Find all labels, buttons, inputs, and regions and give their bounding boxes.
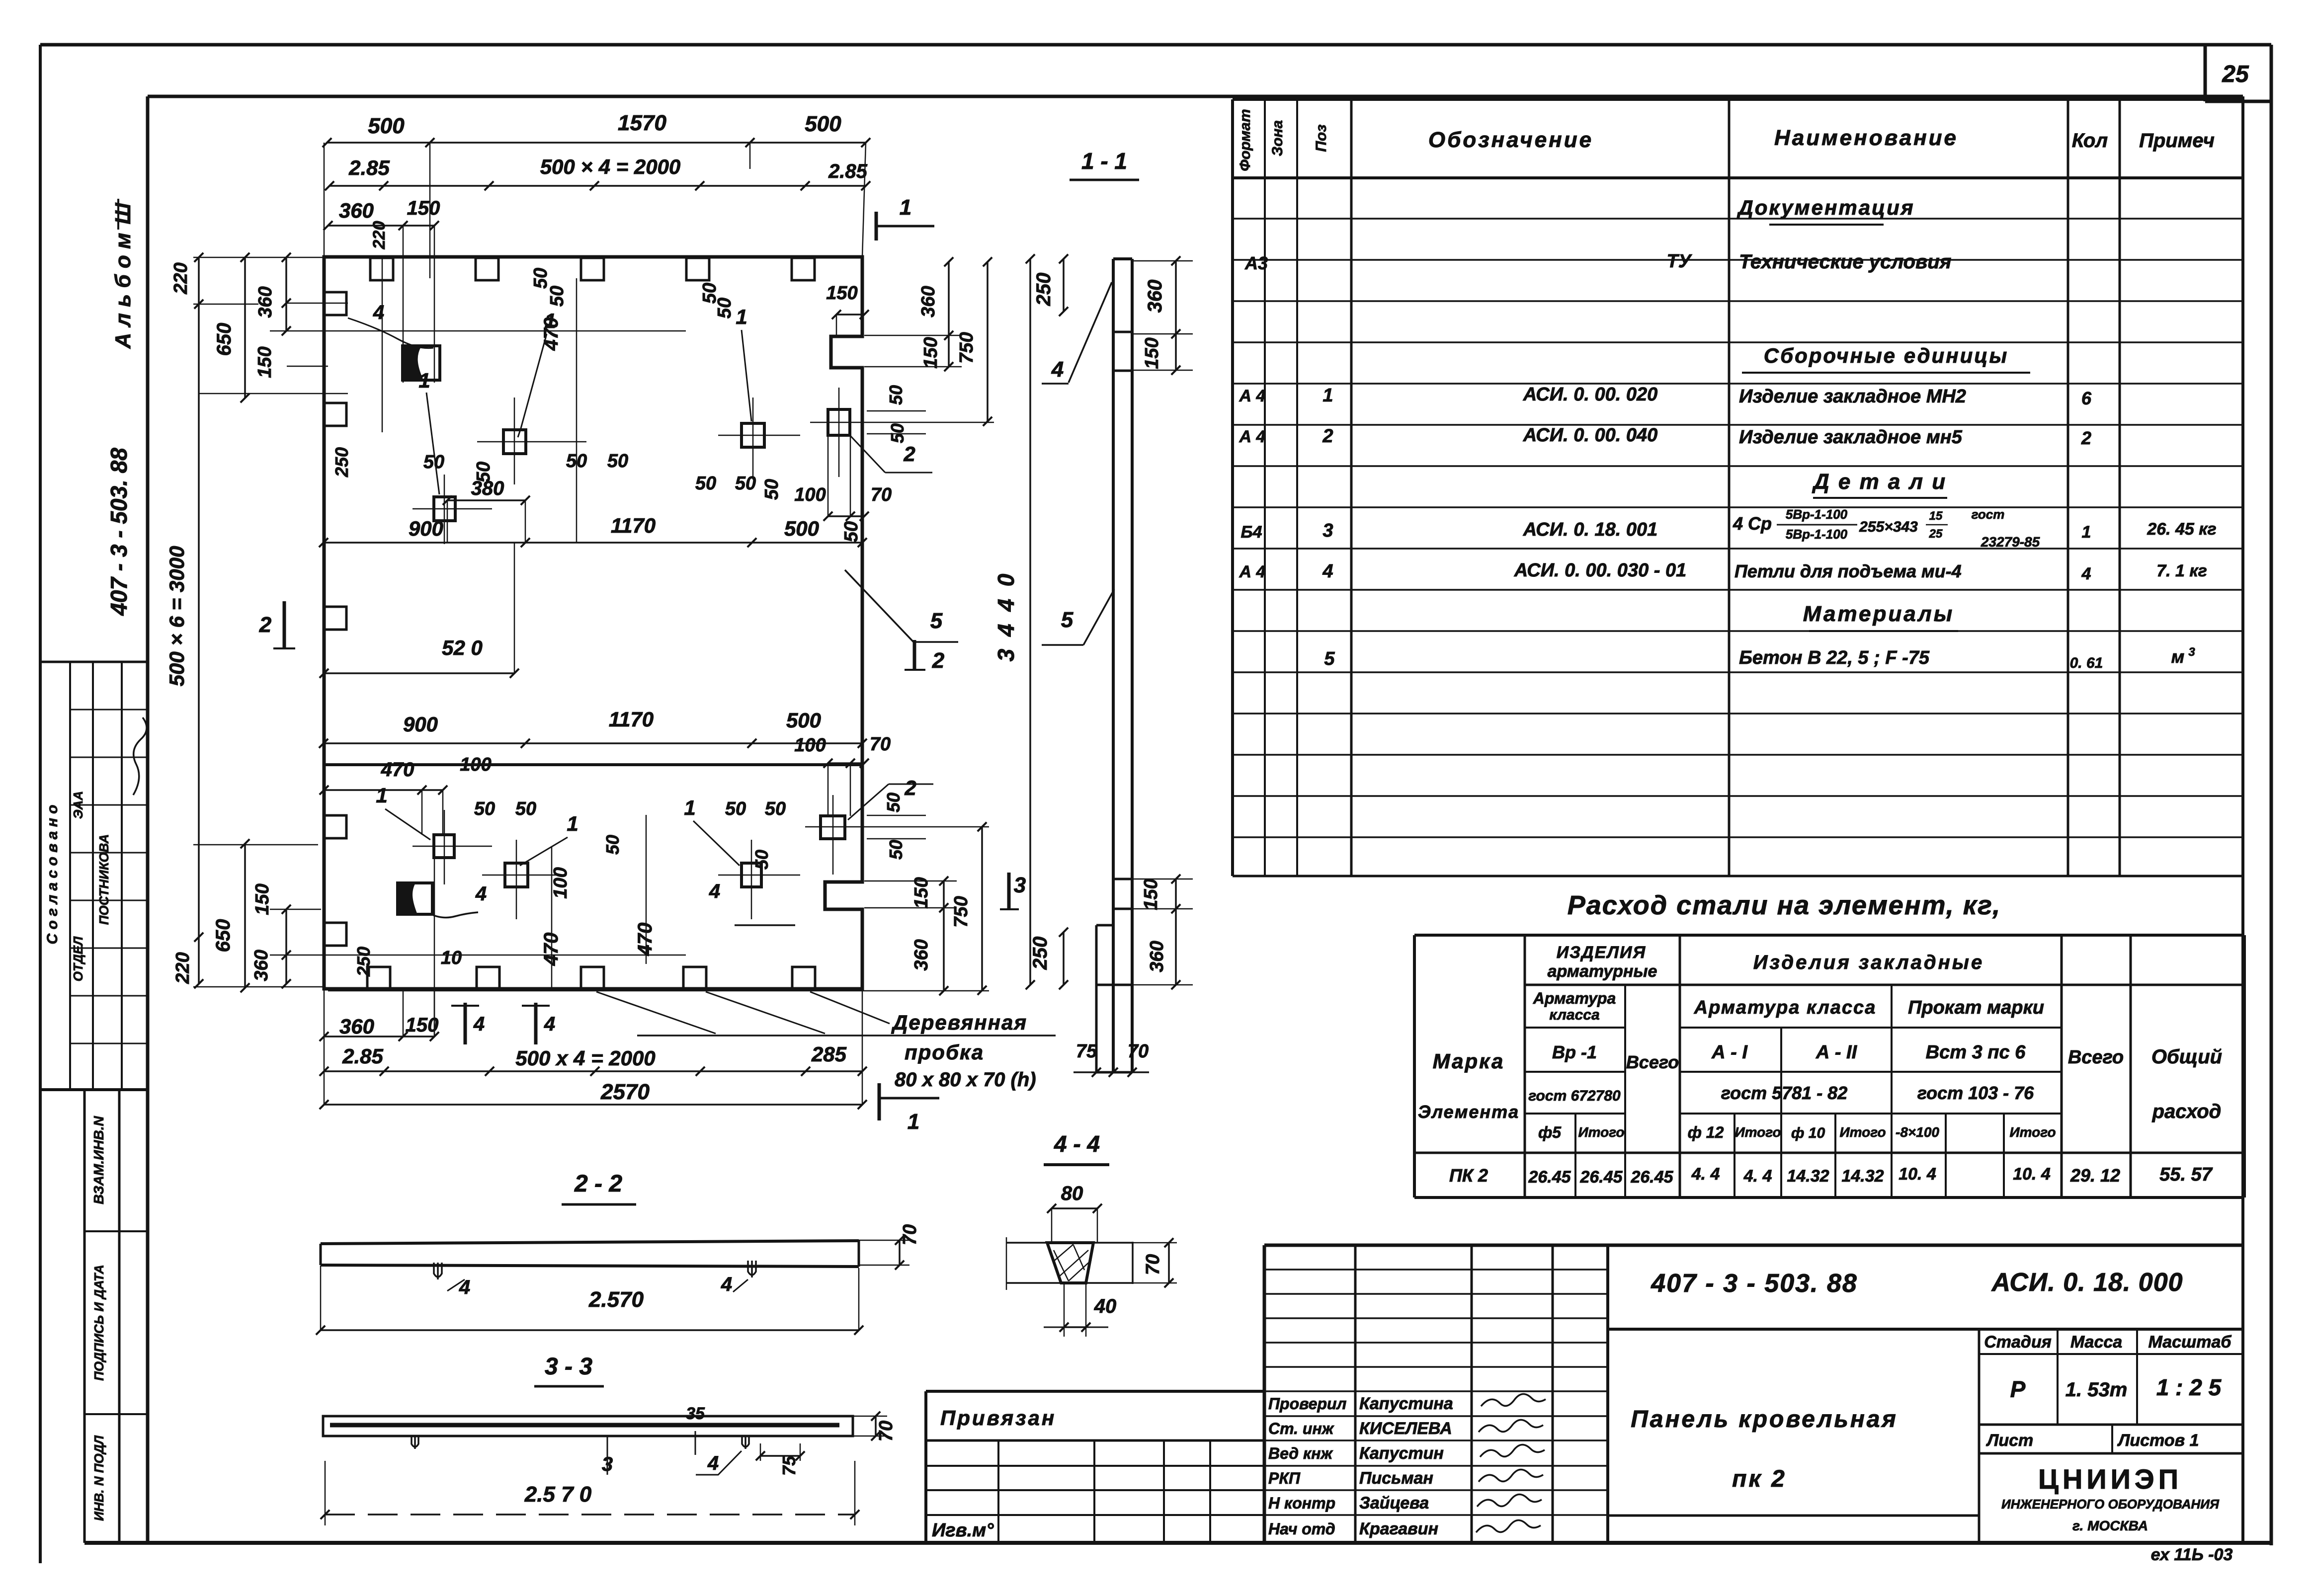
svg-text:25: 25 bbox=[1929, 527, 1943, 541]
soglasovano approval table bbox=[40, 661, 148, 663]
frame top line bbox=[148, 95, 2243, 98]
svg-text:Документация: Документация bbox=[1736, 196, 1914, 219]
strip crossing lines bbox=[1113, 331, 1132, 333]
svg-text:Вст 3 пс 6: Вст 3 пс 6 bbox=[1926, 1042, 2026, 1063]
svg-text:Ш: Ш bbox=[111, 203, 135, 225]
svg-text:500 x 4 = 2000: 500 x 4 = 2000 bbox=[515, 1046, 655, 1070]
svg-text:70: 70 bbox=[900, 1224, 920, 1245]
svg-text:Игв.м°: Игв.м° bbox=[932, 1520, 994, 1541]
svg-text:Капустина: Капустина bbox=[1359, 1394, 1453, 1413]
svg-text:А 4: А 4 bbox=[1239, 427, 1266, 446]
svg-text:4 Ср: 4 Ср bbox=[1733, 513, 1772, 534]
svg-text:Итого: Итого bbox=[1735, 1124, 1781, 1140]
title block central grid verticals bbox=[1354, 1245, 1357, 1543]
svg-text:360: 360 bbox=[339, 199, 374, 222]
svg-text:6: 6 bbox=[2081, 388, 2092, 408]
svg-text:70: 70 bbox=[1143, 1254, 1163, 1275]
svg-text:52 0: 52 0 bbox=[442, 636, 483, 659]
svg-text:2 - 2: 2 - 2 bbox=[574, 1171, 622, 1197]
svg-text:2.85: 2.85 bbox=[828, 160, 868, 182]
svg-text:360: 360 bbox=[911, 939, 932, 970]
svg-text:7. 1 кг: 7. 1 кг bbox=[2156, 561, 2207, 580]
svg-text:Крагавин: Крагавин bbox=[1359, 1519, 1438, 1538]
svg-text:50: 50 bbox=[530, 268, 551, 289]
embedded plate 1 (upper left) bbox=[434, 497, 455, 521]
svg-text:1170: 1170 bbox=[609, 708, 654, 731]
embedded plate 1 (lower right) bbox=[742, 863, 761, 887]
3-3 hook right bbox=[742, 1436, 749, 1449]
svg-text:1: 1 bbox=[2082, 523, 2091, 542]
svg-text:АСИ. 0. 18. 000: АСИ. 0. 18. 000 bbox=[1990, 1268, 2183, 1297]
svg-text:50: 50 bbox=[602, 835, 623, 855]
svg-text:2: 2 bbox=[259, 613, 272, 637]
embedded plate 4 dark wedge (upper) bbox=[403, 346, 440, 380]
svg-text:150: 150 bbox=[826, 283, 857, 304]
svg-text:1: 1 bbox=[544, 309, 556, 332]
svg-text:1: 1 bbox=[684, 796, 695, 819]
svg-text:150: 150 bbox=[252, 883, 273, 915]
svg-text:класса: класса bbox=[1549, 1007, 1599, 1023]
svg-text:5Вр-1-100: 5Вр-1-100 bbox=[1786, 527, 1848, 542]
svg-text:Лист: Лист bbox=[1985, 1431, 2033, 1450]
svg-text:5: 5 bbox=[1061, 608, 1074, 632]
svg-text:50: 50 bbox=[473, 462, 494, 482]
roof panel outline (plan view) bbox=[324, 257, 862, 989]
svg-text:арматурные: арматурные bbox=[1548, 962, 1657, 981]
svg-text:55. 57: 55. 57 bbox=[2159, 1164, 2213, 1185]
svg-text:2: 2 bbox=[2081, 428, 2091, 448]
svg-text:Изделия закладные: Изделия закладные bbox=[1753, 952, 1984, 973]
svg-text:Арматура класса: Арматура класса bbox=[1694, 997, 1877, 1018]
svg-text:Технические условия: Технические условия bbox=[1739, 251, 1951, 273]
svg-text:ВЗАМ.ИНВ.N: ВЗАМ.ИНВ.N bbox=[91, 1116, 106, 1204]
title block outer bbox=[1264, 1244, 2243, 1247]
svg-text:Вед кнж: Вед кнж bbox=[1268, 1444, 1333, 1462]
svg-text:50: 50 bbox=[474, 798, 495, 819]
svg-text:ех 11Ь -03: ех 11Ь -03 bbox=[2151, 1545, 2233, 1564]
svg-text:150: 150 bbox=[911, 877, 932, 908]
svg-text:900: 900 bbox=[403, 713, 438, 736]
svg-text:150: 150 bbox=[254, 346, 275, 378]
svg-text:150: 150 bbox=[407, 197, 440, 219]
sheet outer border bbox=[40, 43, 2271, 47]
svg-text:Деревянная: Деревянная bbox=[891, 1011, 1027, 1034]
2-2 lifting hook right bbox=[748, 1261, 756, 1277]
svg-text:Итого: Итого bbox=[2009, 1124, 2056, 1140]
svg-text:250: 250 bbox=[331, 447, 352, 478]
svg-text:50: 50 bbox=[735, 473, 756, 494]
svg-text:ф5: ф5 bbox=[1538, 1123, 1562, 1141]
svg-text:4: 4 bbox=[721, 1274, 732, 1295]
frame bottom line bbox=[84, 1541, 2271, 1545]
svg-text:А3: А3 bbox=[1244, 253, 1268, 273]
lower view top edge line bbox=[324, 763, 862, 766]
svg-text:10: 10 bbox=[441, 948, 462, 968]
svg-text:1170: 1170 bbox=[611, 514, 656, 537]
svg-text:250: 250 bbox=[1029, 937, 1051, 970]
bottom edge notch squares bbox=[367, 967, 390, 989]
svg-text:Листов 1: Листов 1 bbox=[2117, 1431, 2199, 1450]
svg-text:100: 100 bbox=[460, 754, 491, 775]
svg-text:2: 2 bbox=[903, 442, 915, 466]
svg-text:-8×100: -8×100 bbox=[1896, 1124, 1939, 1140]
svg-text:Б4: Б4 bbox=[1241, 523, 1262, 542]
svg-text:26.45: 26.45 bbox=[1579, 1168, 1623, 1187]
svg-text:Примеч: Примеч bbox=[2139, 130, 2215, 152]
section mark 1 (bottom) bbox=[878, 1083, 881, 1120]
svg-text:50: 50 bbox=[887, 423, 908, 443]
svg-text:Масштаб: Масштаб bbox=[2148, 1333, 2232, 1352]
svg-text:150: 150 bbox=[920, 337, 941, 368]
svg-text:2.570: 2.570 bbox=[588, 1287, 644, 1312]
svg-text:250: 250 bbox=[1033, 273, 1055, 307]
svg-text:2.85: 2.85 bbox=[342, 1044, 383, 1068]
svg-text:26.45: 26.45 bbox=[1528, 1168, 1571, 1187]
svg-text:А 4: А 4 bbox=[1239, 387, 1266, 405]
svg-text:150: 150 bbox=[1141, 878, 1161, 910]
embedded plate 4 dark wedge (lower) bbox=[398, 883, 432, 914]
svg-text:50: 50 bbox=[883, 793, 904, 812]
margin box vzam inv N bbox=[83, 1090, 86, 1543]
svg-text:2.85: 2.85 bbox=[348, 156, 390, 179]
svg-text:расход: расход bbox=[2152, 1101, 2222, 1122]
svg-text:2: 2 bbox=[932, 648, 945, 673]
svg-text:750: 750 bbox=[951, 896, 972, 927]
svg-text:пк 2: пк 2 bbox=[1732, 1466, 1787, 1492]
svg-text:4: 4 bbox=[2081, 564, 2091, 583]
svg-text:АСИ. 0. 00. 040: АСИ. 0. 00. 040 bbox=[1523, 425, 1657, 446]
title block central grid rows bbox=[1264, 1269, 1608, 1271]
svg-text:50: 50 bbox=[761, 479, 782, 500]
privyazan table bbox=[926, 1390, 1264, 1393]
svg-text:407 - 3 - 503. 88: 407 - 3 - 503. 88 bbox=[1651, 1269, 1858, 1298]
svg-text:220: 220 bbox=[172, 952, 193, 984]
svg-text:35: 35 bbox=[686, 1404, 705, 1423]
svg-text:3 4 4 0: 3 4 4 0 bbox=[993, 571, 1019, 662]
svg-text:Зона: Зона bbox=[1269, 120, 1286, 156]
svg-text:500: 500 bbox=[784, 517, 819, 540]
title block right structure bbox=[1608, 1328, 2243, 1331]
svg-text:100: 100 bbox=[550, 867, 571, 898]
svg-text:ОТДЕЛ: ОТДЕЛ bbox=[71, 936, 85, 982]
svg-text:Зайцева: Зайцева bbox=[1359, 1494, 1429, 1513]
svg-text:500 × 4 = 2000: 500 × 4 = 2000 bbox=[540, 155, 681, 178]
svg-text:гост 103 - 76: гост 103 - 76 bbox=[1917, 1083, 2034, 1103]
svg-text:1 : 2 5: 1 : 2 5 bbox=[2156, 1374, 2222, 1400]
embedded plate 1 (lower mid) bbox=[505, 863, 528, 887]
svg-text:750: 750 bbox=[956, 332, 977, 363]
approval signature squiggle bbox=[133, 718, 147, 795]
plate 2 lower 50 dims bbox=[867, 815, 926, 816]
svg-text:4: 4 bbox=[707, 1452, 719, 1474]
svg-text:ПОСТНИКОВА: ПОСТНИКОВА bbox=[96, 834, 111, 925]
svg-text:50: 50 bbox=[725, 798, 746, 819]
svg-text:100: 100 bbox=[794, 484, 826, 505]
svg-text:50: 50 bbox=[695, 473, 716, 494]
svg-text:10. 4: 10. 4 bbox=[2013, 1165, 2051, 1184]
svg-text:70: 70 bbox=[876, 1421, 897, 1441]
svg-text:2: 2 bbox=[1322, 426, 1333, 447]
svg-text:470: 470 bbox=[634, 923, 656, 957]
svg-text:14.32: 14.32 bbox=[1787, 1167, 1829, 1186]
svg-text:А 4: А 4 bbox=[1239, 562, 1266, 581]
svg-text:650: 650 bbox=[212, 919, 234, 953]
svg-text:4: 4 bbox=[373, 302, 384, 323]
svg-text:Прокат марки: Прокат марки bbox=[1908, 997, 2044, 1018]
svg-text:4: 4 bbox=[709, 880, 720, 902]
svg-text:15: 15 bbox=[1929, 509, 1943, 523]
svg-text:4 - 4: 4 - 4 bbox=[1054, 1131, 1100, 1157]
svg-text:ИНЖЕНЕРНОГО ОБОРУДОВАНИЯ: ИНЖЕНЕРНОГО ОБОРУДОВАНИЯ bbox=[2001, 1497, 2220, 1512]
svg-text:Марка: Марка bbox=[1433, 1049, 1505, 1073]
svg-text:150: 150 bbox=[406, 1014, 439, 1036]
svg-text:3: 3 bbox=[2188, 645, 2195, 659]
svg-text:650: 650 bbox=[213, 323, 235, 356]
svg-text:23279-85: 23279-85 bbox=[1981, 534, 2040, 550]
svg-text:100: 100 bbox=[794, 735, 826, 756]
svg-text:2570: 2570 bbox=[600, 1080, 650, 1104]
svg-text:14.32: 14.32 bbox=[1841, 1167, 1884, 1186]
svg-text:гост 672780: гост 672780 bbox=[1528, 1088, 1621, 1104]
svg-text:Изделие закладное МН2: Изделие закладное МН2 bbox=[1739, 386, 1966, 407]
wooden plug leaders bbox=[596, 992, 716, 1034]
svg-text:50: 50 bbox=[886, 385, 906, 405]
svg-text:ПОДПИСЬ И ДАТА: ПОДПИСЬ И ДАТА bbox=[91, 1265, 106, 1381]
svg-text:4. 4: 4. 4 bbox=[1691, 1165, 1720, 1184]
svg-text:360: 360 bbox=[251, 950, 272, 981]
svg-text:4: 4 bbox=[1051, 357, 1064, 382]
svg-text:250: 250 bbox=[353, 947, 374, 977]
svg-text:70: 70 bbox=[1128, 1041, 1149, 1062]
spec table grid bbox=[1231, 99, 1234, 876]
svg-text:Итого: Итого bbox=[1839, 1124, 1886, 1140]
sheet number box 25 bbox=[2204, 45, 2207, 101]
svg-text:26. 45 кг: 26. 45 кг bbox=[2147, 520, 2216, 539]
svg-text:ЦНИИЭП: ЦНИИЭП bbox=[2038, 1463, 2182, 1495]
svg-text:гост: гост bbox=[1972, 507, 2005, 522]
svg-text:Наименование: Наименование bbox=[1774, 126, 1958, 150]
svg-text:Обозначение: Обозначение bbox=[1428, 128, 1593, 152]
projection lines from top dims bbox=[324, 143, 325, 257]
svg-text:Стадия: Стадия bbox=[1984, 1333, 2052, 1352]
svg-text:1: 1 bbox=[908, 1110, 919, 1134]
4-4 side lines bbox=[1006, 1242, 1047, 1244]
svg-text:Бетон В 22, 5 ; F -75: Бетон В 22, 5 ; F -75 bbox=[1739, 647, 1930, 668]
svg-text:50: 50 bbox=[886, 840, 906, 860]
svg-text:Панель кровельная: Панель кровельная bbox=[1631, 1406, 1898, 1433]
svg-text:С о г л а с о в а н о: С о г л а с о в а н о bbox=[44, 805, 61, 945]
svg-text:ф 12: ф 12 bbox=[1688, 1123, 1724, 1141]
spec table header row bbox=[1233, 98, 2243, 101]
svg-text:500: 500 bbox=[368, 114, 405, 138]
4-4 dim 70 bbox=[1133, 1242, 1177, 1244]
svg-text:КИСЕЛЕВА: КИСЕЛЕВА bbox=[1359, 1419, 1452, 1438]
svg-text:Петли для подъема ми-4: Петли для подъема ми-4 bbox=[1735, 561, 1962, 581]
svg-text:ф 10: ф 10 bbox=[1791, 1125, 1825, 1141]
svg-text:АСИ. 0. 18. 001: АСИ. 0. 18. 001 bbox=[1523, 519, 1657, 540]
svg-text:АСИ. 0. 00. 030 - 01: АСИ. 0. 00. 030 - 01 bbox=[1514, 560, 1687, 581]
svg-text:220: 220 bbox=[370, 221, 389, 250]
svg-text:3 - 3: 3 - 3 bbox=[545, 1354, 592, 1380]
svg-text:АСИ. 0. 00. 020: АСИ. 0. 00. 020 bbox=[1523, 384, 1657, 405]
embedded plate 1 (upper mid-left) bbox=[503, 430, 526, 454]
svg-text:Вр -1: Вр -1 bbox=[1552, 1042, 1597, 1062]
svg-text:80 x 80 x 70 (h): 80 x 80 x 70 (h) bbox=[895, 1069, 1036, 1091]
svg-text:А - I: А - I bbox=[1711, 1042, 1748, 1063]
embedded plate 1 (upper right) bbox=[742, 423, 764, 447]
svg-text:ЭАА: ЭАА bbox=[71, 791, 85, 819]
svg-text:1: 1 bbox=[736, 305, 747, 328]
svg-text:ИНВ. N ПОДЛ: ИНВ. N ПОДЛ bbox=[91, 1435, 106, 1521]
svg-text:500 × 6 = 3000: 500 × 6 = 3000 bbox=[165, 546, 188, 687]
svg-text:50: 50 bbox=[765, 798, 786, 819]
3-3 hook left bbox=[412, 1436, 418, 1449]
svg-text:1. 53т: 1. 53т bbox=[2065, 1379, 2128, 1401]
signatures squiggles bbox=[1481, 1394, 1546, 1406]
section mark 1 (top) bbox=[875, 212, 878, 240]
svg-text:470: 470 bbox=[381, 759, 414, 781]
embedded plate 2 (lower right edge) bbox=[821, 816, 845, 839]
svg-text:500: 500 bbox=[786, 709, 821, 732]
top edge notch squares bbox=[370, 258, 393, 280]
svg-text:407 - 3 - 503. 88: 407 - 3 - 503. 88 bbox=[106, 448, 132, 616]
svg-text:Поз: Поз bbox=[1313, 124, 1329, 152]
svg-text:4: 4 bbox=[1322, 561, 1333, 582]
svg-text:10. 4: 10. 4 bbox=[1899, 1165, 1936, 1184]
svg-text:4: 4 bbox=[544, 1013, 555, 1035]
svg-text:360: 360 bbox=[918, 286, 939, 317]
svg-text:3: 3 bbox=[1322, 520, 1333, 541]
svg-text:м: м bbox=[2171, 646, 2185, 667]
svg-text:4: 4 bbox=[473, 1013, 485, 1035]
svg-text:70: 70 bbox=[870, 734, 891, 755]
svg-text:50: 50 bbox=[515, 798, 536, 819]
svg-text:2: 2 bbox=[904, 776, 916, 799]
svg-text:ИЗДЕЛИЯ: ИЗДЕЛИЯ bbox=[1557, 943, 1647, 962]
svg-text:80: 80 bbox=[1061, 1183, 1083, 1204]
svg-text:пробка: пробка bbox=[905, 1040, 984, 1064]
svg-text:1: 1 bbox=[900, 195, 911, 220]
svg-text:220: 220 bbox=[170, 262, 191, 294]
svg-text:5: 5 bbox=[1324, 648, 1335, 669]
svg-text:255×343: 255×343 bbox=[1859, 519, 1918, 535]
svg-text:Письман: Письман bbox=[1359, 1469, 1433, 1488]
svg-text:1 - 1: 1 - 1 bbox=[1081, 148, 1127, 174]
steel table grid bbox=[1414, 934, 2244, 937]
svg-text:РКП: РКП bbox=[1268, 1469, 1301, 1487]
svg-text:Привязан: Привязан bbox=[940, 1406, 1056, 1430]
svg-text:1: 1 bbox=[567, 812, 578, 835]
svg-text:Расход стали на элем: Расход стали на элемент, кг, bbox=[1568, 890, 2001, 920]
svg-text:5: 5 bbox=[930, 609, 943, 633]
svg-text:Ст. инж: Ст. инж bbox=[1268, 1420, 1334, 1437]
svg-text:Д е т а л и: Д е т а л и bbox=[1812, 470, 1947, 494]
svg-text:40: 40 bbox=[1094, 1295, 1117, 1317]
svg-text:Формат: Формат bbox=[1237, 109, 1253, 171]
svg-text:1: 1 bbox=[1322, 385, 1333, 406]
embedded plate 2 (upper right edge) bbox=[828, 409, 850, 435]
svg-text:Нач отд: Нач отд bbox=[1268, 1520, 1335, 1538]
svg-text:А - II: А - II bbox=[1816, 1042, 1858, 1063]
svg-text:1: 1 bbox=[376, 784, 387, 807]
svg-text:Изделие закладное мн5: Изделие закладное мн5 bbox=[1739, 427, 1963, 448]
svg-text:50: 50 bbox=[751, 850, 772, 870]
svg-text:360: 360 bbox=[339, 1015, 374, 1038]
svg-text:50: 50 bbox=[547, 286, 568, 307]
svg-text:Арматура: Арматура bbox=[1533, 989, 1616, 1007]
svg-text:1: 1 bbox=[418, 369, 430, 392]
svg-text:360: 360 bbox=[1147, 941, 1167, 972]
frame left edge bbox=[146, 96, 150, 1543]
svg-text:29. 12: 29. 12 bbox=[2070, 1165, 2120, 1186]
svg-text:50: 50 bbox=[841, 521, 862, 542]
svg-text:3: 3 bbox=[1014, 873, 1026, 897]
svg-text:гост 5781 - 82: гост 5781 - 82 bbox=[1721, 1083, 1847, 1103]
svg-text:Элемента: Элемента bbox=[1418, 1102, 1519, 1122]
svg-text:150: 150 bbox=[1142, 337, 1162, 369]
svg-text:50: 50 bbox=[714, 298, 735, 319]
svg-text:360: 360 bbox=[1144, 280, 1166, 313]
frame right inner line bbox=[2241, 96, 2244, 1543]
2-2 lifting hook left bbox=[434, 1263, 442, 1279]
svg-text:Проверил: Проверил bbox=[1268, 1395, 1347, 1413]
svg-text:4. 4: 4. 4 bbox=[1743, 1167, 1772, 1186]
section 2-2 beam bbox=[321, 1241, 859, 1244]
3-3 dim line bbox=[325, 1514, 855, 1516]
svg-text:50: 50 bbox=[607, 451, 628, 472]
svg-text:2.5 7 0: 2.5 7 0 bbox=[524, 1482, 592, 1507]
svg-text:70: 70 bbox=[871, 484, 892, 505]
svg-text:0. 61: 0. 61 bbox=[2070, 655, 2103, 671]
svg-text:75: 75 bbox=[779, 1455, 799, 1476]
svg-text:г. МОСКВА: г. МОСКВА bbox=[2072, 1518, 2148, 1533]
svg-text:5Вр-1-100: 5Вр-1-100 bbox=[1786, 507, 1848, 522]
svg-text:500: 500 bbox=[805, 112, 841, 136]
svg-text:26.45: 26.45 bbox=[1630, 1168, 1673, 1187]
svg-text:ПК 2: ПК 2 bbox=[1449, 1165, 1488, 1186]
svg-text:Итого: Итого bbox=[1578, 1124, 1624, 1140]
svg-text:Сборочные единицы: Сборочные единицы bbox=[1764, 344, 2008, 367]
svg-text:ТУ: ТУ bbox=[1667, 251, 1693, 272]
section 3-3 beam bbox=[323, 1416, 853, 1436]
svg-text:285: 285 bbox=[811, 1042, 847, 1066]
svg-text:Капустин: Капустин bbox=[1359, 1444, 1444, 1463]
section marks 4 below bottom edge bbox=[464, 1003, 467, 1044]
svg-text:Всего: Всего bbox=[2068, 1047, 2124, 1068]
svg-text:360: 360 bbox=[255, 286, 276, 318]
svg-text:Материалы: Материалы bbox=[1803, 602, 1954, 626]
svg-text:Р: Р bbox=[2010, 1376, 2026, 1402]
embedded plate 1 (lower left) bbox=[434, 835, 454, 858]
svg-text:1570: 1570 bbox=[618, 111, 666, 135]
svg-text:4: 4 bbox=[475, 883, 487, 905]
4-4 trapezoid with hatching bbox=[1047, 1243, 1093, 1283]
svg-text:Н контр: Н контр bbox=[1268, 1494, 1335, 1512]
svg-text:А л ь б о м: А л ь б о м bbox=[111, 233, 135, 349]
section 1-1 strip outline bbox=[1112, 259, 1115, 1072]
svg-text:Общий: Общий bbox=[2151, 1046, 2222, 1068]
left edge notch squares bbox=[324, 292, 346, 315]
svg-text:25: 25 bbox=[2222, 61, 2249, 87]
svg-text:Всего: Всего bbox=[1626, 1052, 1679, 1072]
svg-text:Кол: Кол bbox=[2072, 130, 2108, 152]
svg-text:75: 75 bbox=[1076, 1041, 1097, 1062]
plate 2 upper 50 dims bbox=[867, 410, 926, 412]
svg-text:Масса: Масса bbox=[2070, 1333, 2122, 1352]
